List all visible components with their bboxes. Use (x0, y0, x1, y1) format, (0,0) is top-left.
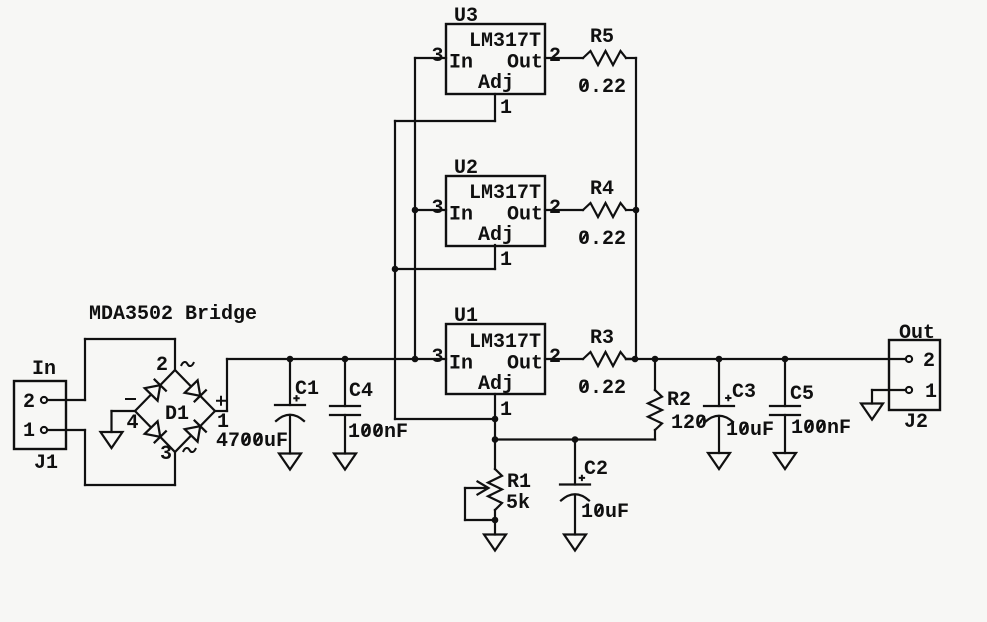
slashed zero in C3 10uF (741, 423, 748, 433)
wire C3 to ground (718, 416, 720, 453)
wire R2 bottom lead (654, 430, 656, 440)
svg-text:MDA3502 Bridge: MDA3502 Bridge (89, 303, 257, 326)
svg-text:100nF: 100nF (348, 421, 408, 444)
svg-text:100nF: 100nF (791, 417, 851, 440)
svg-text:Adj: Adj (478, 224, 514, 247)
capacitor C2 plates (560, 483, 590, 485)
capacitor C3 plates (704, 405, 734, 407)
svg-text:LM317T: LM317T (469, 30, 541, 53)
junction U2 Adj on adj bus (392, 266, 399, 273)
svg-text:R2: R2 (667, 389, 691, 412)
svg-text:2: 2 (923, 350, 935, 373)
junction C1 on rail (287, 356, 294, 363)
wire C1 to ground (289, 415, 291, 454)
bridge rectifier D1 diamond (135, 370, 215, 452)
svg-text:0.22: 0.22 (578, 76, 626, 99)
ground symbol at C4 (334, 454, 356, 470)
svg-text:1: 1 (500, 249, 512, 272)
slashed zero in R3 value (581, 381, 588, 391)
wire right bus vertical joining regulator outputs (635, 58, 637, 359)
svg-text:1: 1 (500, 399, 512, 422)
wire rise to bridge pin3 corner (174, 452, 176, 485)
wire drop to bridge pin2 corner (174, 339, 176, 370)
wire bottom AC run to bridge (85, 484, 175, 486)
junction C2 on bottom net (572, 436, 579, 443)
svg-text:R3: R3 (590, 327, 614, 350)
wire input bus vertical (414, 58, 416, 359)
svg-text:5k: 5k (506, 492, 530, 515)
potentiometer R1 wiper arrow (465, 482, 489, 495)
resistor R2 (648, 390, 662, 430)
svg-text:LM317T: LM317T (469, 331, 541, 354)
wire U2 Out to R4 (545, 209, 583, 211)
svg-text:C1: C1 (295, 378, 319, 401)
resistor R3 (583, 352, 626, 366)
wire R1 wiper to bottom terminal (465, 519, 495, 521)
svg-text:120: 120 (671, 412, 707, 435)
wire U3 Out to R5 (545, 57, 583, 59)
capacitor C2 positive lead (574, 440, 576, 485)
wire C2 to ground (574, 495, 576, 535)
wire J1 pin1 to AC drop (47, 429, 85, 431)
slashed zero in R4 value (581, 232, 588, 242)
J1 pin 2 terminal circle (41, 397, 47, 403)
wire bridge output riser (226, 359, 228, 411)
wire C4 to ground (344, 415, 346, 454)
svg-text:C4: C4 (349, 380, 373, 403)
wire AC drop down (84, 430, 86, 485)
svg-text:3: 3 (160, 443, 172, 466)
slashed zero in C5 100nF (806, 421, 813, 431)
junction adj bus on U1 Adj stem (492, 416, 499, 423)
junction C5 on output rail (782, 356, 789, 363)
svg-text:In: In (449, 52, 473, 75)
C1 polarity plus (293, 395, 299, 401)
wire bridge pin4 to ground (112, 410, 136, 412)
svg-text:0.22: 0.22 (578, 377, 626, 400)
junction U1 Adj / R1 / bottom net (492, 436, 499, 443)
capacitor C4 top lead (344, 359, 346, 406)
wire J2 pin1 to ground run (872, 389, 906, 391)
svg-text:Adj: Adj (478, 72, 514, 95)
svg-text:3: 3 (432, 346, 444, 369)
wire U1 Adj stem down (494, 394, 496, 440)
svg-text:LM317T: LM317T (469, 182, 541, 205)
op-amp regulator U1 LM317T body (446, 324, 545, 394)
junction U2 In on input bus (412, 207, 419, 214)
wire bridge pin1 output (215, 410, 227, 412)
svg-text:U1: U1 (454, 305, 478, 328)
wire R1 bottom lead (494, 510, 496, 535)
svg-text:Adj: Adj (478, 373, 514, 396)
svg-text:2: 2 (549, 197, 561, 220)
wire U2 Adj stem (494, 245, 496, 269)
svg-text:R1: R1 (507, 471, 531, 494)
svg-text:3: 3 (432, 45, 444, 68)
wire ground stem (110, 411, 112, 432)
junction R2 on output rail (652, 356, 659, 363)
bridge AC mark bottom (tilde) (183, 448, 196, 452)
ground symbol at C1 (279, 454, 301, 470)
svg-text:10uF: 10uF (581, 501, 629, 524)
slashed zero in C5 100nF (818, 421, 825, 431)
slashed zero in C2 10uF (596, 505, 603, 515)
C3 polarity plus (725, 395, 731, 401)
capacitor C5 plates (770, 406, 800, 415)
bridge AC mark top (tilde) (181, 362, 194, 366)
ground symbol at R1 (484, 535, 506, 551)
junction input bus on rail (412, 356, 419, 363)
svg-text:2: 2 (549, 45, 561, 68)
slashed zero in C4 100nF (363, 425, 370, 435)
svg-text:J2: J2 (904, 411, 928, 434)
wire AC riser up (84, 339, 86, 400)
slashed zero in 4700uF (255, 434, 262, 444)
svg-text:10uF: 10uF (726, 419, 774, 442)
capacitor C5 top lead (784, 359, 786, 406)
ground symbol at C2 (564, 535, 586, 551)
connector J2 (889, 340, 940, 410)
svg-text:1: 1 (23, 420, 35, 443)
junction R3/R4/R5 bus on output rail (632, 356, 639, 363)
wire R1 wiper drop (464, 488, 466, 520)
wire U3 Adj stem (494, 94, 496, 121)
diode D1 upper-left (pin4 to pin2) (145, 379, 167, 401)
wire R5 to right bus (626, 57, 636, 59)
ground symbol at J2 pin1 (861, 404, 883, 420)
diode D1 upper-right (pin2 to pin1) (185, 380, 207, 402)
junction R1 wiper tie (492, 517, 499, 524)
J1 pin 1 terminal circle (41, 427, 47, 433)
capacitor C1 plates (275, 404, 305, 406)
bridge minus sign (125, 398, 136, 400)
op-amp regulator U3 LM317T body (446, 24, 545, 94)
svg-text:U2: U2 (454, 157, 478, 180)
svg-text:J1: J1 (34, 452, 58, 475)
wire output rail right (node VOUT) (626, 358, 906, 360)
junction C4 on rail (342, 356, 349, 363)
diode D1 lower-right (pin3 to pin1) (185, 420, 207, 442)
svg-text:2: 2 (156, 354, 168, 377)
svg-text:D1: D1 (165, 403, 189, 426)
resistor R5 (583, 51, 626, 65)
wire adj bus vertical (394, 121, 396, 419)
svg-text:C3: C3 (732, 381, 756, 404)
svg-text:Out: Out (899, 322, 935, 345)
svg-text:4700uF: 4700uF (216, 430, 288, 453)
capacitor C4 plates (330, 406, 360, 415)
wire U2 In pin to bus (415, 209, 446, 211)
ground symbol at C5 (774, 453, 796, 469)
bridge plus sign (216, 396, 226, 406)
diode D1 lower-left (pin4 to pin3) (145, 421, 167, 443)
wire R1 top lead (494, 440, 496, 470)
svg-text:1: 1 (925, 381, 937, 404)
slashed zero in 4700uF (243, 434, 250, 444)
connector J1 (14, 381, 66, 449)
wire main rail left (node VIN) (227, 358, 446, 360)
svg-text:C5: C5 (790, 383, 814, 406)
op-amp regulator U2 LM317T body (446, 176, 545, 246)
svg-text:R4: R4 (590, 178, 614, 201)
capacitor C3 positive lead (718, 359, 720, 406)
ground symbol at bridge pin4 (101, 432, 123, 448)
svg-text:0.22: 0.22 (578, 228, 626, 251)
svg-text:4: 4 (127, 412, 139, 435)
slashed zero in C4 100nF (375, 425, 382, 435)
wire U3 In pin to bus (415, 57, 446, 59)
wire R2 top lead (654, 359, 656, 390)
svg-text:In: In (449, 204, 473, 227)
ground symbol at C3 (708, 453, 730, 469)
wire J2 ground stem (871, 390, 873, 404)
wire C5 to ground (784, 415, 786, 453)
junction R4 on right bus (633, 207, 640, 214)
svg-text:C2: C2 (584, 458, 608, 481)
svg-text:3: 3 (432, 197, 444, 220)
svg-text:2: 2 (549, 346, 561, 369)
wire adj bottom net to R2 (495, 438, 655, 440)
wire top AC run to bridge (85, 338, 175, 340)
wire U1 Out to R3 (545, 358, 583, 360)
slashed zero in 120 (698, 416, 705, 426)
wire J1 pin2 to AC riser (47, 399, 85, 401)
svg-text:In: In (449, 353, 473, 376)
slashed zero in R5 value (581, 80, 588, 90)
resistor R4 (583, 203, 626, 217)
capacitor C1 positive lead (289, 359, 291, 405)
wire R3 to right bus (626, 358, 636, 360)
svg-text:U3: U3 (454, 5, 478, 28)
svg-text:1: 1 (500, 97, 512, 120)
wire right bus to rail join (626, 358, 636, 360)
wire adj bus to U1 Adj (395, 418, 495, 420)
J2 pin 2 terminal circle (906, 356, 912, 362)
wire R4 to right bus (626, 209, 636, 211)
svg-text:R5: R5 (590, 26, 614, 49)
potentiometer R1 body (488, 469, 502, 510)
junction C3 on output rail (716, 356, 723, 363)
svg-text:In: In (32, 358, 56, 381)
J2 pin 1 terminal circle (906, 387, 912, 393)
wire U2 Adj to adj bus (395, 268, 495, 270)
C2 polarity plus (579, 475, 585, 481)
svg-text:2: 2 (23, 391, 35, 414)
wire U3 Adj to adj bus (395, 120, 495, 122)
